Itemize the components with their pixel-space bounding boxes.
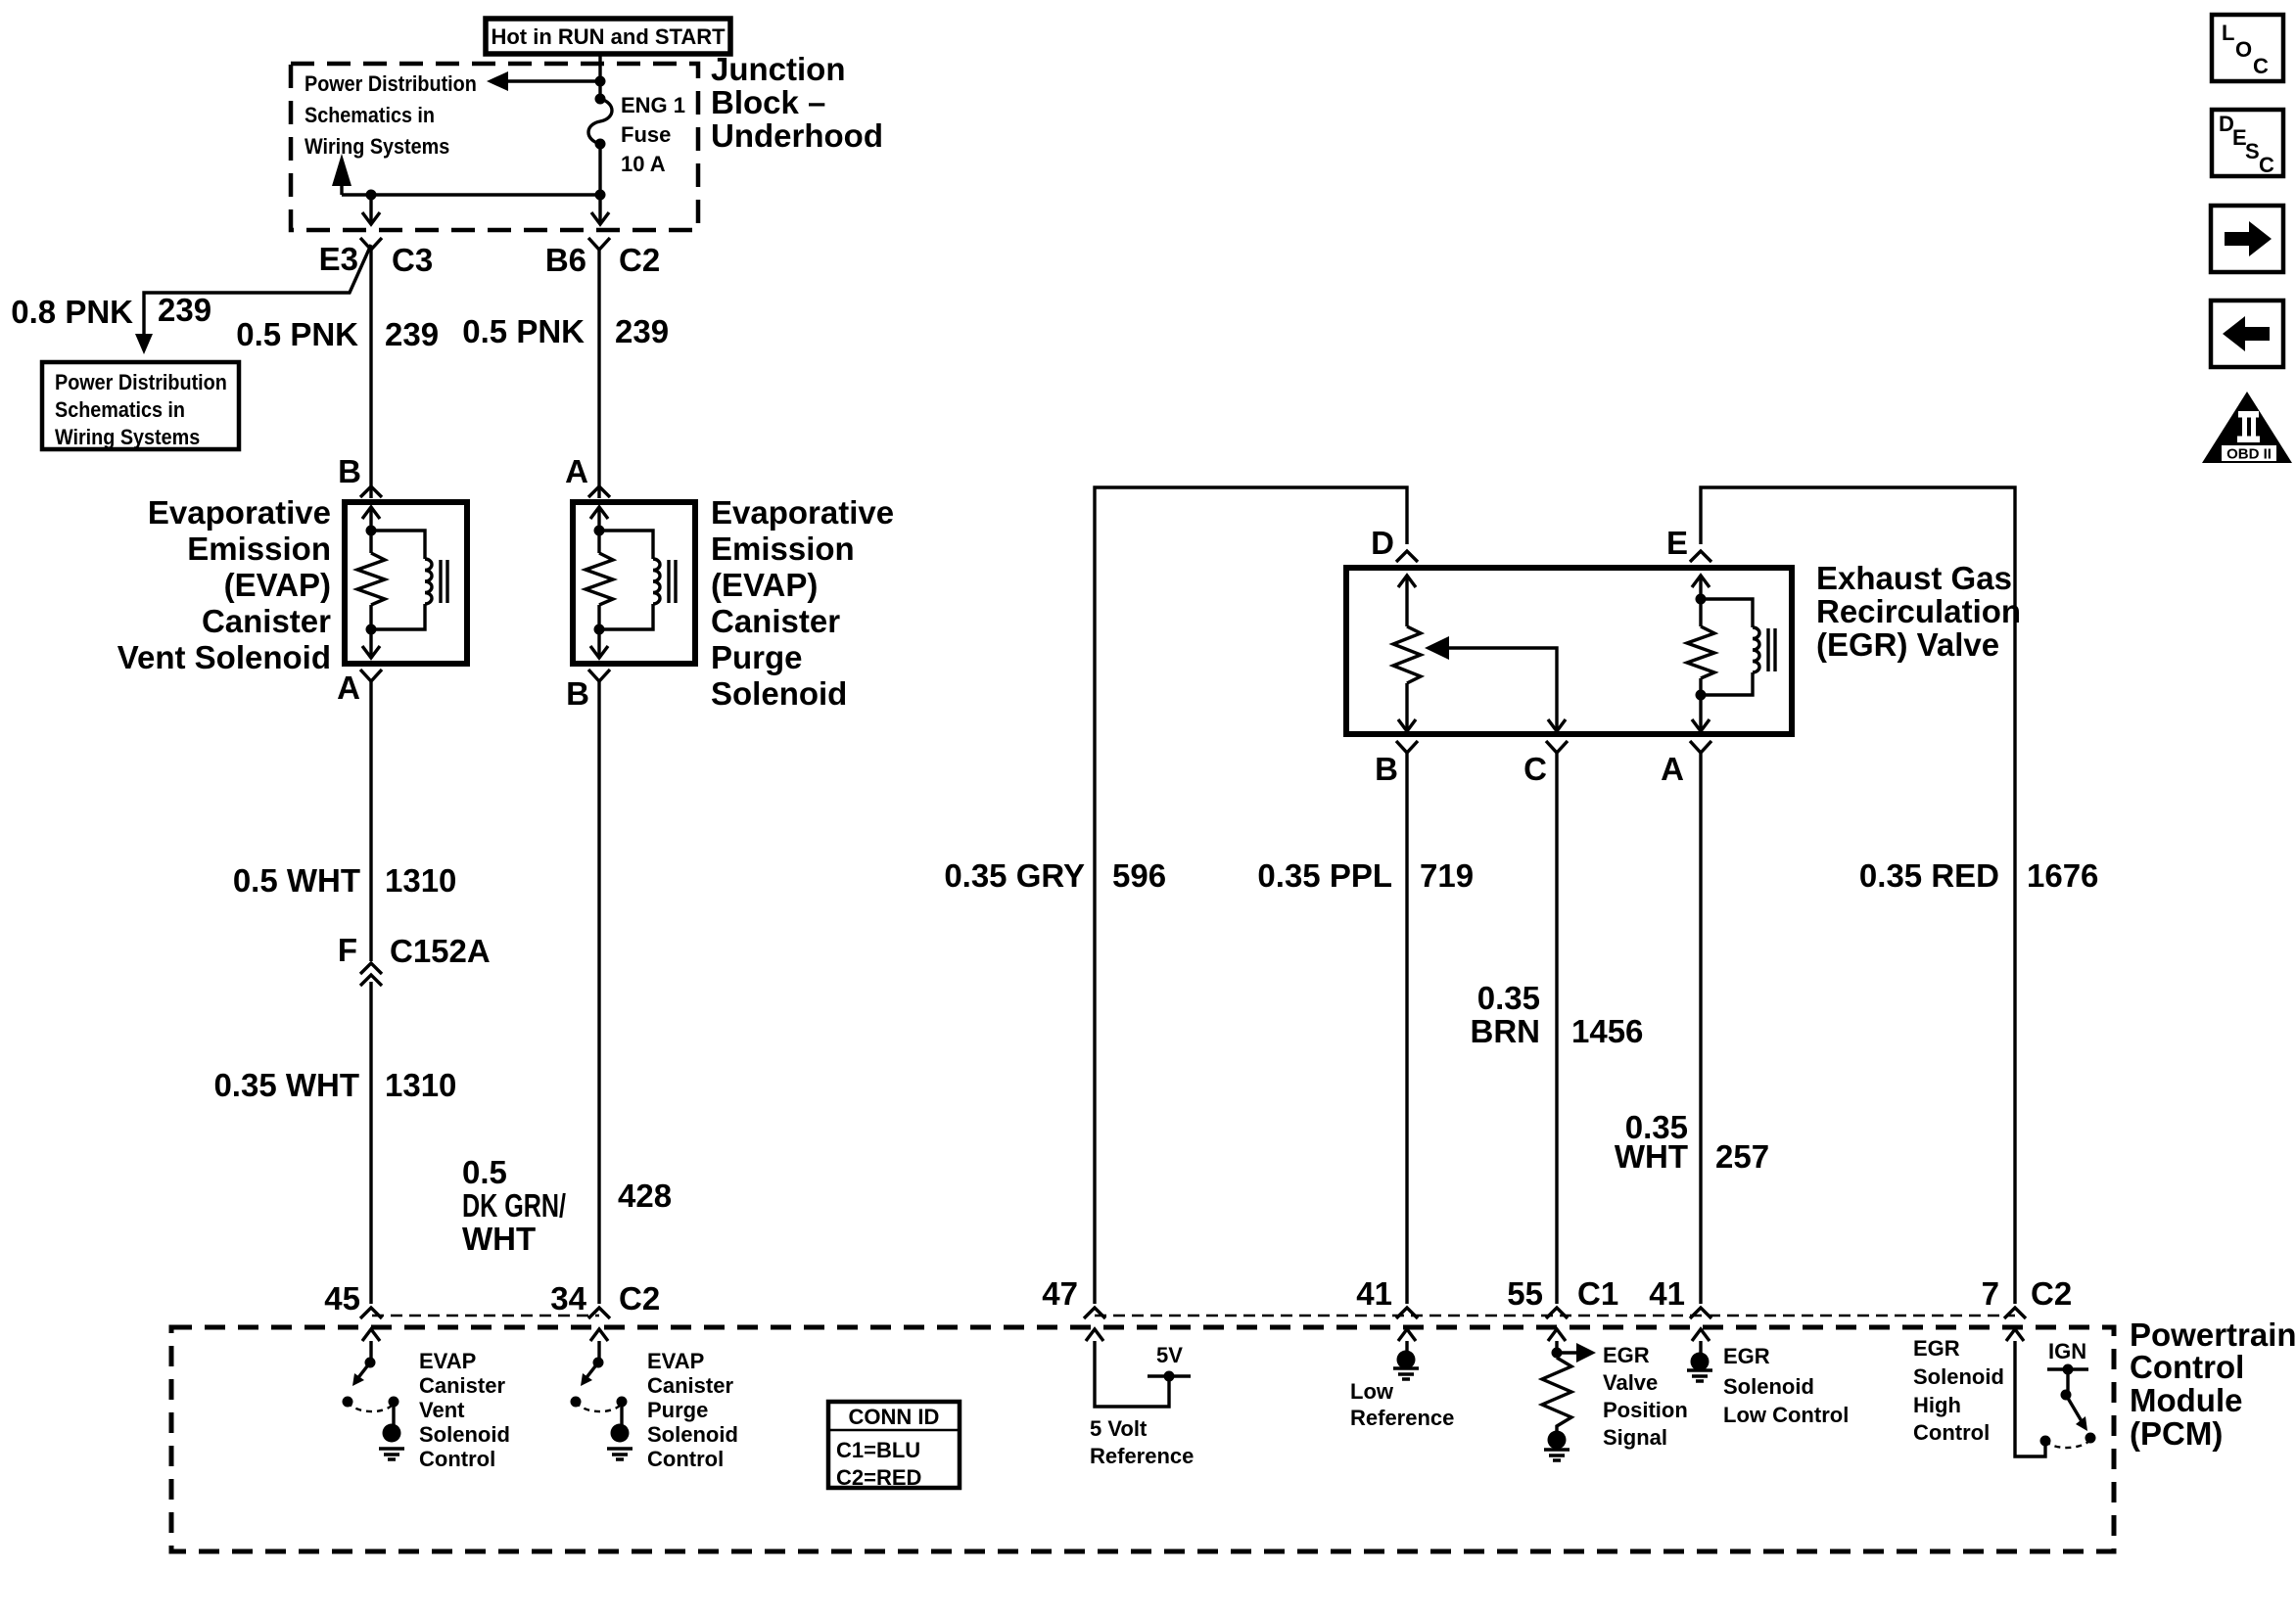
label 5 volt reference bbox=[1090, 1416, 1194, 1468]
svg-text:Solenoid: Solenoid bbox=[711, 675, 847, 712]
connector A below EGR bbox=[1661, 741, 1711, 787]
label pin 47 bbox=[1042, 1275, 1078, 1312]
label pin 34 C2 bbox=[550, 1280, 660, 1317]
wire B to PCM pin 41 bbox=[1405, 753, 1408, 1304]
svg-text:Schematics in: Schematics in bbox=[55, 398, 185, 422]
label 0.35 WHT 1310 bbox=[213, 1067, 456, 1103]
svg-text:0.5: 0.5 bbox=[462, 1154, 507, 1190]
label pin 41 bbox=[1356, 1275, 1392, 1312]
wire purge solenoid B to PCM pin 34 bbox=[597, 681, 600, 1304]
svg-text:Schematics in: Schematics in bbox=[305, 104, 435, 127]
EVAP canister purge solenoid box bbox=[573, 502, 695, 664]
svg-text:Purge: Purge bbox=[711, 639, 803, 675]
svg-text:34: 34 bbox=[550, 1280, 586, 1317]
svg-text:B: B bbox=[338, 453, 361, 489]
svg-text:EVAP: EVAP bbox=[419, 1349, 476, 1373]
svg-text:0.35 RED: 0.35 RED bbox=[1859, 857, 1999, 894]
wire 0.8 PNK branch bbox=[135, 245, 371, 354]
svg-text:F: F bbox=[338, 932, 357, 968]
label powertrain control module bbox=[2130, 1317, 2296, 1452]
svg-text:(EGR) Valve: (EGR) Valve bbox=[1816, 626, 1999, 663]
svg-text:Exhaust Gas: Exhaust Gas bbox=[1816, 560, 2012, 596]
CONN ID box bbox=[828, 1402, 960, 1490]
label B pin bbox=[338, 453, 361, 489]
svg-text:719: 719 bbox=[1420, 857, 1474, 894]
label EVAP canister purge solenoid control bbox=[647, 1349, 738, 1471]
svg-text:Valve: Valve bbox=[1603, 1370, 1658, 1395]
svg-text:5V: 5V bbox=[1156, 1343, 1183, 1367]
svg-text:Vent Solenoid: Vent Solenoid bbox=[117, 639, 331, 675]
svg-text:428: 428 bbox=[618, 1178, 672, 1214]
label exhaust gas recirculation valve bbox=[1816, 560, 2021, 663]
label pin 55 C1 bbox=[1507, 1275, 1618, 1312]
wire drop to E3 with arrowhead bbox=[362, 195, 380, 224]
icon right arrow box bbox=[2211, 206, 2283, 272]
svg-text:EGR: EGR bbox=[1603, 1343, 1650, 1367]
label EGR valve position signal bbox=[1603, 1343, 1688, 1450]
svg-text:E: E bbox=[1666, 525, 1688, 561]
EVAP canister purge solenoid control driver switch bbox=[571, 1329, 633, 1459]
connector chevron pin 7 bbox=[2004, 1308, 2026, 1318]
svg-text:OBD II: OBD II bbox=[2226, 446, 2272, 463]
icon LOC box bbox=[2212, 15, 2283, 81]
svg-text:1676: 1676 bbox=[2027, 857, 2098, 894]
svg-text:WHT: WHT bbox=[1615, 1138, 1688, 1175]
label 0.35 PPL 719 bbox=[1257, 857, 1474, 894]
wire vent solenoid A to PCM pin 45 bbox=[369, 681, 372, 1304]
svg-text:Purge: Purge bbox=[647, 1398, 708, 1422]
PCM dashed box bbox=[171, 1327, 2114, 1551]
wire A to PCM pin 41 right bbox=[1699, 753, 1702, 1304]
svg-text:45: 45 bbox=[324, 1280, 360, 1317]
icon left arrow box bbox=[2211, 300, 2283, 367]
svg-text:Wiring Systems: Wiring Systems bbox=[55, 426, 200, 449]
svg-text:WHT: WHT bbox=[462, 1221, 536, 1257]
svg-text:10 A: 10 A bbox=[621, 152, 666, 176]
svg-text:C1=BLU: C1=BLU bbox=[836, 1438, 920, 1462]
svg-text:DK GRN/: DK GRN/ bbox=[462, 1187, 566, 1224]
svg-text:Control: Control bbox=[647, 1447, 724, 1471]
fuse ENG 1 10 A bbox=[588, 94, 612, 150]
label evaporative emission purge solenoid bbox=[711, 494, 894, 712]
EVAP vent solenoid control driver switch bbox=[343, 1329, 405, 1459]
svg-text:S: S bbox=[2245, 139, 2260, 163]
svg-text:C2: C2 bbox=[619, 1280, 660, 1317]
svg-text:1310: 1310 bbox=[385, 862, 456, 899]
label 0.5 PNK 239 left bbox=[236, 316, 439, 352]
svg-text:1456: 1456 bbox=[1571, 1013, 1643, 1049]
vent solenoid internals bbox=[357, 507, 447, 658]
thin dashed connector line left bbox=[372, 1315, 599, 1317]
svg-text:(PCM): (PCM) bbox=[2130, 1415, 2223, 1452]
label evaporative emission vent solenoid bbox=[117, 494, 331, 675]
svg-text:Canister: Canister bbox=[711, 603, 840, 639]
svg-text:1310: 1310 bbox=[385, 1067, 456, 1103]
label low reference bbox=[1350, 1379, 1454, 1430]
svg-text:Signal: Signal bbox=[1603, 1425, 1667, 1450]
svg-text:(EVAP): (EVAP) bbox=[711, 567, 818, 603]
connector F C152A inline bbox=[338, 932, 491, 986]
svg-text:Evaporative: Evaporative bbox=[148, 494, 331, 531]
svg-text:Reference: Reference bbox=[1090, 1444, 1194, 1468]
connector E bbox=[1666, 525, 1711, 562]
connector Y below purge solenoid pin B bbox=[566, 670, 610, 712]
svg-text:EGR: EGR bbox=[1913, 1336, 1960, 1361]
svg-text:41: 41 bbox=[1649, 1275, 1685, 1312]
node junction dot E3 branch bbox=[366, 190, 377, 201]
svg-text:A: A bbox=[1661, 751, 1684, 787]
svg-text:0.35 PPL: 0.35 PPL bbox=[1257, 857, 1392, 894]
label pin 7 C2 bbox=[1982, 1275, 2073, 1312]
connector chevron pin 41 bbox=[1396, 1308, 1418, 1318]
connector E3 C3 bbox=[319, 238, 434, 278]
svg-text:0.35 WHT: 0.35 WHT bbox=[213, 1067, 359, 1103]
svg-text:Reference: Reference bbox=[1350, 1406, 1454, 1430]
label A pin bbox=[565, 453, 588, 489]
connector chevron pin 41 right bbox=[1690, 1308, 1711, 1318]
svg-text:(EVAP): (EVAP) bbox=[224, 567, 331, 603]
svg-text:Position: Position bbox=[1603, 1398, 1688, 1422]
5 volt reference circuit bbox=[1086, 1329, 1191, 1407]
svg-text:Canister: Canister bbox=[419, 1373, 505, 1398]
connector chevron pin 55 bbox=[1546, 1308, 1568, 1318]
svg-text:Block –: Block – bbox=[711, 84, 825, 120]
svg-text:C3: C3 bbox=[392, 242, 433, 278]
svg-text:Low: Low bbox=[1350, 1379, 1394, 1404]
EGR wiper arrow bbox=[1425, 636, 1566, 731]
wire E3 to EVAP vent solenoid bbox=[369, 250, 372, 498]
svg-text:EGR: EGR bbox=[1723, 1344, 1770, 1368]
wire fuse to bus bbox=[595, 144, 606, 201]
svg-text:Control: Control bbox=[419, 1447, 495, 1471]
svg-text:C: C bbox=[2253, 54, 2269, 78]
connector B below EGR bbox=[1375, 741, 1418, 787]
svg-text:0.8 PNK: 0.8 PNK bbox=[11, 294, 133, 330]
box Hot in RUN and START bbox=[486, 19, 730, 54]
svg-text:IGN: IGN bbox=[2048, 1339, 2086, 1363]
connector chevron at vent solenoid pin B bbox=[360, 486, 382, 497]
svg-text:C152A: C152A bbox=[390, 933, 491, 969]
svg-text:CONN ID: CONN ID bbox=[849, 1405, 940, 1429]
wire E to PCM pin 7 bbox=[1701, 487, 2015, 1304]
label pin 41 right bbox=[1649, 1275, 1685, 1312]
svg-text:Wiring Systems: Wiring Systems bbox=[305, 135, 449, 159]
junction block dashed box bbox=[291, 64, 698, 230]
label ENG 1 Fuse 10 A bbox=[621, 93, 685, 176]
svg-text:C: C bbox=[1523, 751, 1547, 787]
connector B6 C2 bbox=[545, 238, 660, 278]
EGR valve position signal input bbox=[1542, 1329, 1596, 1460]
svg-text:Emission: Emission bbox=[711, 531, 855, 567]
svg-text:A: A bbox=[337, 670, 360, 706]
svg-text:55: 55 bbox=[1507, 1275, 1543, 1312]
svg-text:0.5 PNK: 0.5 PNK bbox=[462, 313, 585, 349]
arrow up to wiring systems text bbox=[332, 154, 351, 195]
EGR solenoid coil bbox=[1687, 576, 1775, 731]
svg-text:ENG 1: ENG 1 bbox=[621, 93, 685, 117]
connector C below EGR bbox=[1523, 741, 1568, 787]
purge solenoid internals bbox=[586, 507, 676, 658]
svg-text:B: B bbox=[1375, 751, 1398, 787]
svg-text:257: 257 bbox=[1715, 1138, 1769, 1175]
svg-text:D: D bbox=[1371, 525, 1394, 561]
svg-text:Hot in RUN and START: Hot in RUN and START bbox=[491, 24, 726, 49]
label EGR solenoid low control bbox=[1723, 1344, 1849, 1427]
connector chevron pin 47 bbox=[1084, 1308, 1105, 1318]
svg-text:C1: C1 bbox=[1577, 1275, 1618, 1312]
svg-text:Evaporative: Evaporative bbox=[711, 494, 894, 531]
wire D to PCM pin 47 bbox=[1095, 487, 1407, 1304]
svg-text:Emission: Emission bbox=[187, 531, 331, 567]
connector chevron at purge solenoid pin A bbox=[588, 486, 610, 497]
label 0.5 PNK 239 right bbox=[462, 313, 669, 349]
svg-text:Recirculation: Recirculation bbox=[1816, 593, 2021, 629]
power distribution text inside junction block bbox=[305, 72, 477, 159]
label EVAP canister vent solenoid control bbox=[419, 1349, 510, 1471]
connector chevron pin 45 bbox=[360, 1308, 382, 1318]
svg-text:596: 596 bbox=[1112, 857, 1166, 894]
svg-text:Solenoid: Solenoid bbox=[419, 1422, 510, 1447]
label EGR solenoid high control bbox=[1913, 1336, 2004, 1445]
node junction dot at fuse feed bbox=[595, 76, 606, 87]
svg-text:Module: Module bbox=[2130, 1382, 2242, 1418]
svg-text:O: O bbox=[2235, 37, 2252, 62]
svg-text:High: High bbox=[1913, 1393, 1961, 1417]
svg-text:Power Distribution: Power Distribution bbox=[55, 371, 227, 394]
svg-text:41: 41 bbox=[1356, 1275, 1392, 1312]
svg-text:0.5 WHT: 0.5 WHT bbox=[233, 862, 360, 899]
svg-text:Fuse: Fuse bbox=[621, 122, 671, 147]
svg-text:Vent: Vent bbox=[419, 1398, 465, 1422]
arrow to power distribution schematics bbox=[487, 71, 600, 91]
svg-text:0.35 GRY: 0.35 GRY bbox=[944, 857, 1085, 894]
EVAP canister vent solenoid box bbox=[345, 502, 467, 664]
junction block label bbox=[711, 51, 883, 154]
svg-text:EVAP: EVAP bbox=[647, 1349, 704, 1373]
svg-text:E3: E3 bbox=[319, 241, 358, 277]
label 0.35 BRN 1456 bbox=[1471, 980, 1644, 1049]
icon DESC box bbox=[2212, 110, 2283, 177]
label 0.35 WHT 257 bbox=[1615, 1109, 1769, 1175]
icon OBD II triangle bbox=[2202, 392, 2292, 463]
svg-text:239: 239 bbox=[158, 292, 211, 328]
svg-text:7: 7 bbox=[1982, 1275, 1999, 1312]
svg-text:Powertrain: Powertrain bbox=[2130, 1317, 2296, 1353]
thin dashed connector line right bbox=[1095, 1315, 2015, 1317]
wire bus horizontal bbox=[342, 193, 600, 196]
box power distribution schematics bbox=[42, 362, 239, 449]
low reference ground bbox=[1393, 1329, 1419, 1379]
EGR position sensor potentiometer bbox=[1393, 576, 1421, 731]
svg-text:239: 239 bbox=[385, 316, 439, 352]
label 0.35 RED 1676 bbox=[1859, 857, 2099, 894]
svg-text:C2: C2 bbox=[619, 242, 660, 278]
svg-text:C2=RED: C2=RED bbox=[836, 1465, 921, 1490]
connector Y below vent solenoid pin A bbox=[337, 670, 382, 706]
label pin 45 bbox=[324, 1280, 360, 1317]
svg-text:0.35: 0.35 bbox=[1477, 980, 1540, 1016]
wire C to PCM pin 55 bbox=[1555, 753, 1558, 1304]
svg-text:Power Distribution: Power Distribution bbox=[305, 72, 477, 96]
svg-text:Control: Control bbox=[2130, 1349, 2244, 1385]
label 0.8 PNK 239 bbox=[11, 292, 211, 330]
svg-text:Canister: Canister bbox=[647, 1373, 733, 1398]
svg-text:Low Control: Low Control bbox=[1723, 1403, 1849, 1427]
label 0.35 GRY 596 bbox=[944, 857, 1166, 894]
svg-text:0.5 PNK: 0.5 PNK bbox=[236, 316, 358, 352]
EGR solenoid low control ground bbox=[1687, 1329, 1712, 1381]
svg-text:Solenoid: Solenoid bbox=[1913, 1364, 2004, 1389]
svg-text:239: 239 bbox=[615, 313, 669, 349]
svg-text:Junction: Junction bbox=[711, 51, 846, 87]
wire hot feed vertical bbox=[598, 54, 601, 99]
svg-text:BRN: BRN bbox=[1471, 1013, 1541, 1049]
svg-text:Solenoid: Solenoid bbox=[1723, 1374, 1814, 1399]
svg-text:B6: B6 bbox=[545, 242, 586, 278]
label 0.5 WHT 1310 bbox=[233, 862, 457, 899]
wire B6 to EVAP purge solenoid bbox=[597, 250, 600, 498]
EGR solenoid high control driver bbox=[2006, 1329, 2096, 1456]
svg-text:Underhood: Underhood bbox=[711, 117, 883, 154]
wire drop to B6 with arrowhead bbox=[591, 195, 609, 224]
svg-text:Control: Control bbox=[1913, 1420, 1990, 1445]
svg-text:Canister: Canister bbox=[202, 603, 331, 639]
svg-text:5 Volt: 5 Volt bbox=[1090, 1416, 1148, 1441]
svg-text:47: 47 bbox=[1042, 1275, 1078, 1312]
svg-text:A: A bbox=[565, 453, 588, 489]
EGR valve box bbox=[1346, 568, 1792, 734]
connector chevron pin 34 bbox=[588, 1308, 610, 1318]
svg-text:C: C bbox=[2259, 153, 2274, 177]
svg-text:C2: C2 bbox=[2031, 1275, 2072, 1312]
svg-text:L: L bbox=[2222, 21, 2234, 45]
connector D bbox=[1371, 525, 1418, 562]
svg-text:B: B bbox=[566, 675, 589, 712]
svg-text:Solenoid: Solenoid bbox=[647, 1422, 738, 1447]
label 0.5 DK GRN WHT 428 bbox=[462, 1154, 672, 1257]
